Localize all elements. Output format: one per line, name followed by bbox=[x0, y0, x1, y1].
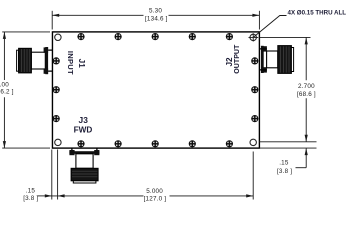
extension line bottom edge right (.15 right dim) bbox=[259, 147, 316, 149]
J2 flange plate bbox=[261, 46, 264, 73]
leader line to top-right hole bbox=[253, 16, 286, 38]
J2 flange nub bottom bbox=[262, 67, 267, 72]
svg-text:[3.8 ]: [3.8 ] bbox=[277, 168, 292, 175]
svg-text:5.30: 5.30 bbox=[149, 8, 162, 15]
extension line bottom edge left (3.00 dim) bbox=[2, 147, 50, 149]
dimension line 2.700 bbox=[305, 37, 307, 141]
arrowhead .15 right up bbox=[305, 148, 308, 155]
screw top 5 bbox=[226, 33, 233, 40]
svg-text:[3.8 ]: [3.8 ] bbox=[23, 195, 38, 202]
J3 coupling nut cap bbox=[73, 181, 96, 183]
svg-text:INPUT: INPUT bbox=[66, 51, 75, 75]
J2 bolt lines bbox=[259, 49, 267, 70]
corner hole top-right (leader target) bbox=[250, 34, 256, 40]
svg-text:J1: J1 bbox=[77, 59, 86, 69]
extension line box left edge down (.15 bottom dim) bbox=[51, 150, 53, 200]
dimension line 5.000 bbox=[52, 195, 253, 197]
J2 flange nub top bbox=[262, 46, 267, 51]
svg-text:J3: J3 bbox=[79, 115, 89, 125]
svg-text:FWD: FWD bbox=[74, 125, 93, 134]
svg-text:.15: .15 bbox=[26, 188, 36, 195]
dimension line 3.00 bbox=[3, 32, 5, 148]
svg-text:[68.6 ]: [68.6 ] bbox=[297, 91, 316, 98]
screw left 1 bbox=[53, 57, 60, 64]
screw right 2 bbox=[251, 86, 258, 93]
screw bottom 1 bbox=[77, 140, 84, 147]
screw top 3 bbox=[152, 33, 159, 40]
extension line bottom-right hole (2.700 dim) bbox=[259, 141, 316, 143]
enclosure box outline bbox=[52, 32, 259, 148]
arrowhead .15 bottom pointing right bbox=[45, 194, 52, 197]
J1 coupling nut bbox=[19, 48, 32, 73]
leader .15 right bbox=[296, 167, 307, 169]
connector J1 (left, N-type side view) bbox=[17, 47, 53, 74]
extension line top edge left (3.00 dim) bbox=[2, 31, 50, 33]
screw top 2 bbox=[115, 33, 122, 40]
connector J3 (bottom, side view pointing down) bbox=[69, 148, 99, 183]
arrowhead 5.000 right bbox=[246, 194, 253, 197]
J3 flange nub right bbox=[94, 150, 99, 155]
J1 flange nub top bbox=[44, 47, 49, 52]
screw bottom 2 bbox=[115, 140, 122, 147]
J3 flange plate bbox=[69, 151, 99, 154]
arrowhead 5.30 right bbox=[252, 14, 259, 17]
corner hole top-left bbox=[55, 34, 61, 40]
J1 flange plate bbox=[45, 47, 48, 74]
J3 coupling nut bbox=[71, 168, 98, 181]
svg-text:2.700: 2.700 bbox=[298, 83, 315, 90]
J1 bolt lines bbox=[48, 50, 52, 71]
svg-text:.15: .15 bbox=[279, 160, 289, 167]
J1 flange nub bottom bbox=[44, 68, 49, 73]
arrowhead 5.30 left bbox=[52, 14, 59, 17]
dimension line 5.30 bbox=[52, 14, 259, 16]
svg-text:[127.0 ]: [127.0 ] bbox=[144, 196, 167, 203]
screw bottom 4 bbox=[189, 140, 196, 147]
svg-text:[76.2 ]: [76.2 ] bbox=[0, 89, 14, 96]
dim line .15 bottom left leader bbox=[37, 195, 52, 197]
J3 neck bbox=[76, 154, 93, 169]
arrowhead 3.00 top bbox=[3, 32, 6, 39]
crosshair on top-right hole bbox=[249, 33, 259, 41]
extension line bottom-left hole down (5.000 dim) bbox=[57, 150, 59, 200]
dim line .15 right bbox=[305, 148, 307, 168]
screw top 1 bbox=[77, 33, 84, 40]
screw right 3 bbox=[251, 115, 258, 122]
arrowhead 3.00 bottom bbox=[3, 141, 6, 148]
svg-text:3.00: 3.00 bbox=[0, 82, 9, 89]
extension line top-right hole (2.700 dim) bbox=[259, 36, 310, 38]
screw top 4 bbox=[189, 33, 196, 40]
arrowhead 2.700 bottom bbox=[305, 135, 308, 142]
connector J2 (right, N-type side view) bbox=[259, 46, 293, 74]
svg-text:[134.6 ]: [134.6 ] bbox=[145, 16, 168, 23]
J3 flange nub left bbox=[69, 150, 74, 155]
corner hole bottom-right bbox=[250, 139, 256, 145]
J2 neck bbox=[267, 51, 278, 68]
extension line right edge up (5.30 dim) bbox=[258, 11, 260, 30]
extension line bottom-right hole down (5.000 dim) bbox=[252, 152, 254, 200]
svg-text:4X Ø0.15 THRU ALL: 4X Ø0.15 THRU ALL bbox=[288, 9, 347, 16]
corner hole bottom-left bbox=[55, 139, 61, 145]
extension line left edge up (5.30 dim) bbox=[51, 11, 53, 30]
svg-text:OUTPUT: OUTPUT bbox=[233, 44, 241, 74]
J2 coupling nut cap bbox=[291, 48, 293, 72]
J3 bolt lines bbox=[72, 148, 97, 151]
screw bottom 5 bbox=[226, 140, 233, 147]
screw left 2 bbox=[53, 86, 60, 93]
screw right 1 bbox=[251, 57, 258, 64]
screw left 3 bbox=[53, 115, 60, 122]
J2 coupling nut bbox=[278, 46, 292, 74]
arrowhead 2.700 top bbox=[305, 37, 308, 44]
J1 neck bbox=[31, 52, 45, 69]
svg-text:5.000: 5.000 bbox=[146, 188, 163, 195]
screw bottom 3 bbox=[152, 140, 159, 147]
arrowhead 5.000 left bbox=[58, 194, 65, 197]
J1 coupling nut cap bbox=[17, 50, 19, 71]
